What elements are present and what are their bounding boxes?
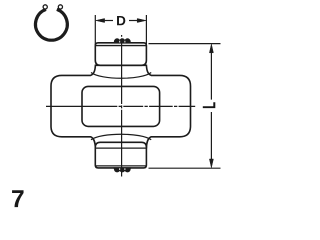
bottom bearing cup (95, 142, 146, 168)
dimension L extension lines (149, 44, 221, 169)
dimension L line with arrows (209, 44, 213, 168)
central boss (inner rounded rectangle) (82, 86, 160, 126)
circlip (snap ring) icon (36, 5, 68, 40)
top grease fitting (114, 39, 131, 43)
saddle arc over bottom cup (91, 134, 151, 140)
saddle arc under top cup (91, 73, 151, 79)
bottom cup seam line (95, 147, 146, 149)
body outline (cross / spider) (51, 65, 191, 147)
vertical centerline (121, 35, 123, 177)
dimension D extension lines (95, 15, 146, 45)
horizontal centerline (46, 105, 195, 107)
svg-text:7: 7 (11, 186, 25, 213)
svg-text:D: D (116, 13, 126, 28)
top cup seam line (95, 45, 146, 47)
dimension D line with arrows (96, 19, 146, 23)
top bearing cup (95, 43, 146, 66)
label L (rotated) (203, 102, 216, 108)
bottom grease fitting (114, 168, 131, 172)
